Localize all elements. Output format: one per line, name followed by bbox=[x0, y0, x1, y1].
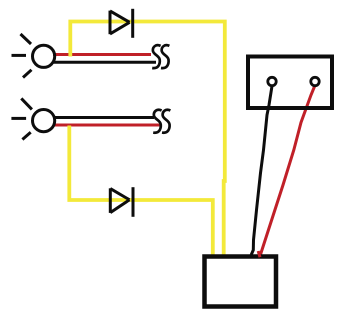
wire black lamp2 bbox=[53, 116, 154, 119]
wire red tip overlapping box B1 border bbox=[258, 251, 260, 257]
diode D1 bbox=[110, 9, 133, 38]
squiggle break S2 (wire continues) bbox=[153, 110, 170, 133]
terminal pin 1 bbox=[268, 77, 276, 85]
lamp LP2 bbox=[11, 98, 54, 139]
diode D2 bbox=[110, 187, 133, 217]
wire red lamp1 bbox=[53, 53, 151, 56]
wire yellow W2 (lamp2 - diode D2 - box B1) bbox=[69, 126, 213, 257]
wire yellow W1 (lamp1 - diode D1 - box B1) bbox=[70, 22, 225, 257]
connector J1 (top-right box) fill bbox=[246, 55, 334, 110]
box B1 (bottom control box) bbox=[205, 257, 277, 307]
wire black J1 pin1 to box B1 bbox=[251, 86, 272, 255]
wire red J1 pin2 to box B1 bbox=[261, 87, 315, 255]
lamp LP1 bbox=[12, 34, 55, 78]
connector J1 (top-right box) outline bbox=[248, 57, 332, 109]
terminal pin 2 bbox=[311, 77, 319, 85]
wire red lamp2 bbox=[53, 124, 161, 127]
squiggle break S1 (wire continues) bbox=[152, 45, 169, 68]
wire black lamp1 bbox=[53, 61, 156, 64]
